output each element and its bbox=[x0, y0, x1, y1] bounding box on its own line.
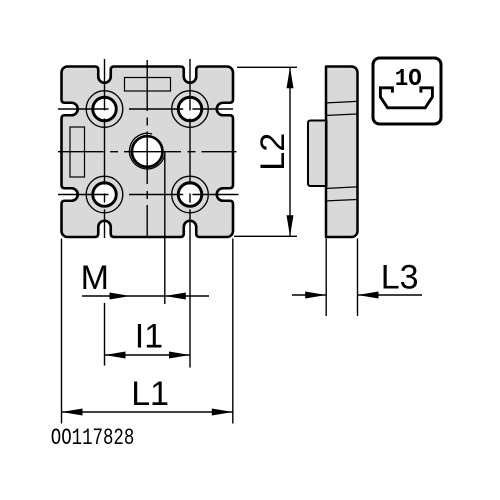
plate centerline horizontal (dashed) y=151.7 bbox=[58, 151, 237, 153]
dimension I1 left extension segment bbox=[104, 303, 106, 366]
dimension L3 arrow left (pointing right) bbox=[305, 292, 326, 299]
dimension L2 line bbox=[289, 67, 291, 236]
side view boss bbox=[308, 121, 327, 187]
counterbore hole bottom-right bbox=[172, 176, 209, 213]
dimension M extension right bbox=[164, 152, 166, 304]
dimension L3 extension left bbox=[325, 239, 327, 317]
hole centerline horizontal top y=109 bbox=[58, 108, 233, 110]
dimension M arrow right (pointing left) bbox=[165, 293, 186, 300]
hole centerline vertical right x=190 bbox=[189, 59, 191, 368]
center hole bore bbox=[132, 136, 163, 167]
dimension L1 extension left bbox=[61, 239, 63, 424]
hole centerline vertical left x=104.5 bbox=[104, 59, 106, 238]
dimension L2 extension bottom bbox=[234, 235, 297, 237]
dimension L1 line bbox=[62, 411, 233, 413]
dimension L3 line left tail bbox=[292, 294, 326, 296]
dimension I1 line bbox=[105, 354, 191, 356]
dimension I1 arrow right bbox=[169, 352, 190, 359]
hole centerline horizontal bottom y=194.5 bbox=[58, 194, 239, 196]
profile slot icon box bbox=[373, 58, 441, 124]
svg-text:L2: L2 bbox=[254, 133, 292, 171]
dimension L2 extension top bbox=[237, 66, 297, 68]
dimension M arrow left (pointing right) bbox=[110, 293, 131, 300]
dimension L3 arrow right (pointing left) bbox=[358, 292, 379, 299]
center hole thread arc bbox=[129, 133, 164, 169]
counterbore hole bottom-left bbox=[86, 176, 123, 213]
dimension M line bbox=[82, 295, 209, 297]
front view plate outline with edge notches bbox=[62, 67, 234, 238]
dimension L1 extension right bbox=[232, 239, 234, 424]
counterbore hole top-left bbox=[86, 91, 123, 128]
dimension L2 arrow down bbox=[287, 215, 294, 236]
dimension L1 label digit-1 base bar bbox=[153, 402, 166, 405]
dimension L1 arrow left bbox=[62, 409, 83, 416]
svg-text:OO117828: OO117828 bbox=[51, 425, 135, 451]
dimension L2 arrow up bbox=[287, 67, 294, 88]
profile slot icon glyph bbox=[380, 88, 432, 108]
side view slot edge lines top bbox=[327, 101, 357, 115]
marking rectangle left bbox=[70, 127, 85, 177]
dimension I1 arrow left bbox=[105, 352, 126, 359]
plate centerline vertical (dashed) x=147.2 bbox=[146, 60, 148, 237]
dimension L3 extension right bbox=[357, 239, 359, 317]
dimension L1 arrow right bbox=[212, 409, 233, 416]
svg-text:L3: L3 bbox=[381, 258, 419, 296]
svg-text:1O: 1O bbox=[395, 66, 422, 93]
side view slab bbox=[326, 67, 358, 238]
dimension L3 line right tail bbox=[358, 294, 423, 296]
svg-text:L1: L1 bbox=[131, 375, 169, 413]
dimension I1 label digit-1 base bar bbox=[148, 345, 161, 348]
counterbore hole top-right bbox=[172, 91, 209, 128]
svg-text:I1: I1 bbox=[135, 317, 163, 355]
marking rectangle top bbox=[125, 78, 171, 92]
svg-text:M: M bbox=[81, 259, 109, 297]
side view slot edge lines bottom bbox=[327, 187, 357, 201]
